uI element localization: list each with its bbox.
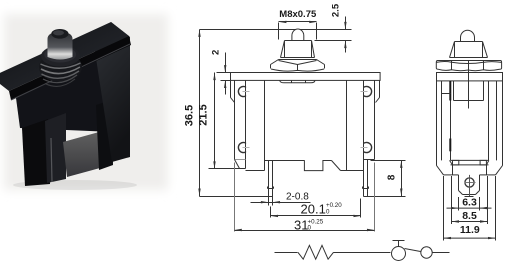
20.1 dimension [270,207,272,218]
11.9 arrows [444,237,452,239]
svg-text:2: 2 [210,50,221,55]
photo inner leg [96,100,113,170]
photo mid panel [45,113,66,183]
side body outer legs [436,81,438,166]
36.5 arrows [198,29,200,37]
push-button actuator [393,240,405,242]
2 dim lines (plate thickness) [217,72,231,74]
right terminal [363,160,365,197]
svg-text:M8x0.75: M8x0.75 [279,9,317,20]
neck side [455,41,483,43]
resistor heater element [298,245,334,259]
svg-text:2.5: 2.5 [331,3,342,17]
body bottom stepped edge [265,160,305,162]
M8x0.75 dimension line [279,21,317,23]
2.5 dimension line [345,17,347,30]
svg-text:31: 31 [294,218,308,233]
2.5 dim extension lines [307,29,352,31]
wire right [433,252,450,254]
faston blade side [458,175,460,191]
svg-text:8: 8 [386,174,397,180]
svg-text:21.5: 21.5 [198,104,210,125]
contact left [392,247,406,261]
left leg cross line [442,93,451,95]
svg-text:11.9: 11.9 [460,224,480,236]
neck / threaded bushing front [285,40,312,42]
photo center recess gap [63,132,100,177]
top recess dip [280,81,315,83]
wire middle [334,252,391,254]
side view arrowheads [444,207,496,239]
side plate [437,73,503,81]
2-0.8 dimension [251,202,311,204]
switch blade [405,249,421,252]
20.1 arrows [271,215,279,217]
front view dimension arrowheads [198,21,402,232]
photo left foot [22,119,50,186]
right bracket arm [379,81,381,98]
photo mounting plate top face [0,22,129,91]
U channel [453,81,455,101]
2.5 arrows [344,22,346,30]
8 arrows [400,160,402,168]
photo plate front long face [9,36,131,100]
product photo: thermal breaker photograph [0,14,168,190]
31 arrows [234,229,242,231]
left bracket arm [230,81,232,98]
11.9 dimension [443,176,445,241]
contact right [421,247,432,258]
extension line button top level [200,29,352,31]
right flange strip [363,81,365,160]
button dome side [461,30,475,41]
right mounting holes [361,86,371,152]
side inner leg lines [441,81,443,160]
blade hole [465,178,474,187]
left flange strip [234,81,236,160]
31 dimension [234,163,236,232]
svg-text:0: 0 [308,225,312,232]
photo button cap [48,32,73,60]
6.3 arrows (outside) [451,207,459,209]
photo right slab [94,22,130,162]
2-0.8 arrows [261,201,269,203]
button dome front [292,29,304,41]
svg-text:20.1: 20.1 [301,202,326,217]
terminal boss side [451,159,489,161]
21.5 dimension [214,73,216,169]
8.5 dimension [451,176,453,224]
6.3 dimension [458,197,460,211]
svg-text:6.3: 6.3 [462,197,477,209]
svg-text:36.5: 36.5 [184,105,196,126]
21.5 arrows [213,73,215,81]
left terminal [268,161,270,197]
wire left [275,252,298,254]
M8 thread extension lines [278,23,280,40]
hex nut front [279,59,317,61]
hex nut side [438,60,501,62]
8.5 arrows [452,220,460,222]
M8 arrows [279,21,287,23]
36.5 dimension [199,30,201,197]
body rectangle [264,81,266,171]
8 dimension right [371,160,406,162]
mounting plate front [231,73,381,81]
svg-text:8.5: 8.5 [462,210,477,222]
photo body upper band [16,52,113,132]
snap barb dark marks [449,81,451,101]
svg-text:0: 0 [326,209,330,216]
photo threaded bushing with spring [39,52,82,82]
2 arrows [224,65,226,73]
left mounting holes [238,86,248,152]
bottom gap lines [246,170,265,172]
